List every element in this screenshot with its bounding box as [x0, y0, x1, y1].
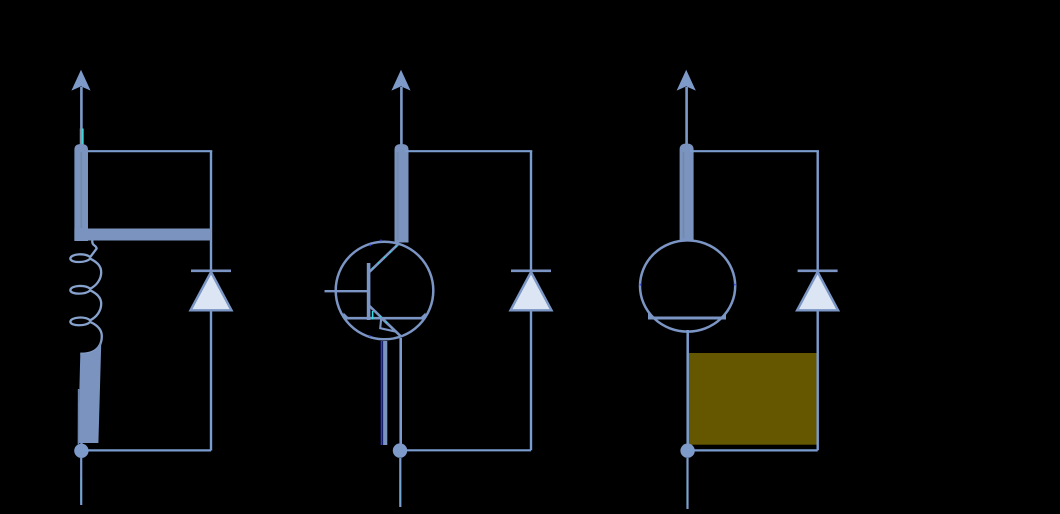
inductor L1 coil: [70, 232, 102, 354]
diode D2 triangle: [511, 272, 552, 310]
transistor Q1 emitter diagonal: [369, 306, 401, 337]
cyan connector remnant node A: [82, 129, 84, 145]
transistor Q1 base lead: [325, 290, 369, 292]
wire edge seen at bar left: [77, 389, 79, 444]
junction dot node D: [680, 444, 694, 458]
terminal arrow T2 shaft: [400, 87, 403, 145]
wire bottom rail: [688, 449, 818, 451]
diode D3 triangle: [797, 272, 838, 310]
wire motor bottom lead: [686, 330, 689, 447]
transistor Q1 circle: [336, 242, 434, 340]
wire top rail: [84, 150, 212, 152]
blue connection dots on motor circle: [640, 284, 736, 286]
cyan remnant bottom stub: [80, 478, 82, 502]
wire top rail: [690, 150, 819, 152]
load block (olive): [688, 353, 817, 445]
transistor Q1 collector diagonal: [370, 244, 399, 271]
transistor Q1 base bar: [367, 263, 371, 320]
transistor Q1 emitter arrowhead: [380, 318, 396, 331]
terminal arrow T3 shaft: [685, 87, 688, 145]
motor M1 chord line: [649, 317, 726, 320]
highlight bar vertical (top lead): [74, 144, 88, 241]
junction dot node B: [74, 444, 88, 458]
cyan remnant dashes on collector: [373, 246, 397, 268]
wire stripe seen through bar 3: [683, 152, 685, 238]
motor M1 chord left wedge: [648, 313, 656, 320]
diode D1 triangle: [191, 272, 232, 310]
diode D2 cathode bar: [511, 269, 551, 272]
highlight line (emitter path): [383, 341, 387, 445]
wire top rail: [405, 150, 532, 152]
cyan remnant bottom stub 3: [686, 480, 688, 505]
wire right branch (diode branch): [530, 151, 532, 451]
transistor Q1 chord left wedge: [344, 313, 351, 320]
highlight bar vertical (motor lead): [680, 144, 694, 241]
transistor Q1 chord line: [344, 317, 425, 320]
wire right branch (diode branch): [817, 151, 819, 451]
terminal arrow T2 head: [391, 70, 410, 91]
wire bottom terminal stub: [80, 458, 82, 505]
cyan remnant bottom stub 2: [399, 480, 401, 503]
highlight bar vertical (collector lead): [395, 144, 409, 243]
wire collector lead under highlight: [397, 150, 399, 242]
terminal arrow T3 head: [677, 70, 696, 91]
cyan connector remnant at emitter: [372, 311, 374, 320]
blue connector under emitter highlight: [381, 341, 383, 445]
junction dot node C: [393, 443, 407, 457]
highlight bar lower (bottom lead): [78, 334, 102, 443]
cyan remnant dashes on emitter: [380, 316, 392, 327]
blue remnant dots on circle arc: [369, 239, 382, 337]
wire bottom terminal stub: [399, 458, 401, 507]
wire stripe seen through bar 1: [80, 152, 82, 228]
wire stripe seen through bar 2: [397, 152, 399, 240]
gray shaft remnant node A: [79, 129, 81, 145]
terminal arrow T1 shaft: [80, 87, 83, 145]
wire bottom terminal stub: [686, 458, 688, 509]
wire motor lead under highlight: [683, 150, 685, 240]
wire bottom rail: [81, 449, 211, 451]
diode D1 cathode bar: [191, 269, 231, 272]
wire emitter to junction: [399, 338, 402, 447]
transistor Q1 chord right wedge: [419, 313, 426, 320]
terminal arrow T1 head: [71, 70, 90, 91]
diode D3 cathode bar: [798, 269, 838, 272]
motor M1 chord right wedge: [719, 313, 727, 320]
wire right branch (diode branch): [210, 151, 212, 451]
wire bottom rail: [400, 449, 531, 451]
motor M1 circle: [640, 240, 735, 331]
wire coil bottom lead: [80, 440, 82, 449]
highlight bar horizontal (coil top link): [74, 229, 211, 241]
wire under highlight (terminal lead): [81, 145, 83, 240]
